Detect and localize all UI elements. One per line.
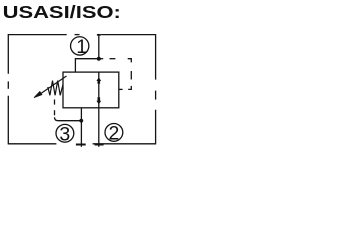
pilot line dash corner top	[128, 59, 132, 63]
port circle 1	[71, 37, 89, 55]
adjustment arrowhead	[34, 92, 42, 98]
boundary left lower segment	[8, 96, 56, 144]
pilot line dash b	[130, 71, 132, 80]
boundary top short segment	[75, 34, 80, 36]
boundary left dash	[7, 81, 9, 88]
boundary right dash	[155, 91, 157, 100]
boundary bottom segment with port 3 tick	[76, 144, 86, 146]
adjustment arrow line	[39, 76, 66, 95]
spring	[48, 81, 63, 96]
port circle 3	[56, 124, 74, 142]
svg-text:3: 3	[59, 123, 70, 145]
wire jog under circle 1	[75, 59, 98, 72]
svg-text:1: 1	[76, 36, 87, 58]
svg-text:2: 2	[109, 123, 120, 145]
node junction dot port 3	[79, 119, 83, 123]
port circle 2	[105, 123, 123, 141]
pilot line dash corner bottom	[128, 86, 131, 90]
wire port 2 line	[98, 108, 100, 147]
port 1 tick	[97, 34, 101, 36]
wire flow path line through box	[98, 72, 100, 108]
drain line dash a	[54, 100, 56, 105]
node junction dot port 1	[97, 57, 101, 61]
valve envelope box	[63, 72, 119, 108]
boundary right lower segment	[93, 110, 156, 144]
pilot line dash at box edge	[119, 88, 123, 90]
drain line dash b	[54, 110, 56, 115]
wire port 1 riser	[98, 35, 100, 59]
arrowhead down	[96, 97, 101, 104]
boundary top-right segment	[101, 35, 156, 80]
boundary top-left segment	[8, 35, 66, 74]
pilot line solid stub	[99, 58, 103, 60]
drain line corner and tail	[55, 117, 82, 121]
svg-text:USASI/ISO:: USASI/ISO:	[3, 3, 121, 23]
pilot line dash a	[110, 58, 116, 60]
port 2 tick	[95, 144, 104, 146]
arrowhead up	[96, 77, 101, 83]
wire port 3 line	[80, 108, 82, 147]
